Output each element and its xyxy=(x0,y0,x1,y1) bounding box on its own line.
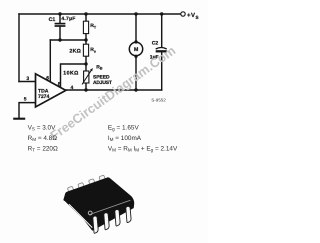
node C1 top xyxy=(58,12,61,15)
wire output rail xyxy=(66,89,162,91)
wire top supply rail xyxy=(19,13,181,15)
node C1 bottom xyxy=(58,38,61,41)
svg-text:ADJUST: ADJUST xyxy=(93,80,112,86)
svg-text:2KΩ: 2KΩ xyxy=(69,48,81,54)
svg-text:IM = 100mA: IM = 100mA xyxy=(108,135,142,142)
resistor RS xyxy=(83,44,88,56)
IC bottom-left highlight xyxy=(69,204,92,227)
wire RT bottom lead xyxy=(85,34,87,40)
svg-text:4: 4 xyxy=(71,85,74,91)
svg-text:C1: C1 xyxy=(49,17,56,23)
IC front parting line xyxy=(89,200,131,215)
wire pin8 xyxy=(61,64,87,88)
capacitor C1 xyxy=(55,24,66,26)
pin 1 bottom lead xyxy=(93,216,99,233)
wire RS top lead xyxy=(85,40,87,44)
svg-text:5: 5 xyxy=(24,96,27,102)
pin 5 top nub xyxy=(99,175,106,182)
svg-text:6: 6 xyxy=(46,75,49,81)
ground xyxy=(13,118,25,120)
svg-text:VS = 3.0V: VS = 3.0V xyxy=(28,124,57,131)
svg-text:RM = 4.8Ω: RM = 4.8Ω xyxy=(28,135,58,142)
pin 3 bottom lead xyxy=(115,209,121,226)
node motor bottom xyxy=(134,88,137,91)
IC package SOIC-8 photo xyxy=(64,175,133,233)
wire left rail xyxy=(18,14,20,82)
wire motor bottom lead xyxy=(135,57,137,91)
pin 7 top nub xyxy=(78,183,85,190)
svg-text:M: M xyxy=(134,47,138,53)
node RT-RS junction xyxy=(84,38,87,41)
svg-text:Eg = 1.65V: Eg = 1.65V xyxy=(108,124,140,131)
motor M xyxy=(129,40,142,58)
pin 2 bottom lead xyxy=(104,213,110,230)
svg-text:S-9552: S-9552 xyxy=(151,98,166,103)
svg-text:4.7µF: 4.7µF xyxy=(61,16,75,22)
svg-text:RT: RT xyxy=(90,23,97,29)
wire node C1-RT xyxy=(50,39,86,41)
wire pot bottom lead xyxy=(85,83,87,90)
svg-text:RT = 220Ω: RT = 220Ω xyxy=(28,146,58,153)
wire motor top lead xyxy=(135,14,137,42)
svg-text:3: 3 xyxy=(26,76,29,82)
potentiometer RB xyxy=(82,68,93,85)
wire C2 bottom lead xyxy=(161,52,163,90)
wire C2 top lead xyxy=(161,14,163,47)
wire pin5 input xyxy=(19,103,36,118)
node C2 top xyxy=(160,12,163,15)
pin 4 bottom lead xyxy=(126,206,132,222)
svg-text:RB: RB xyxy=(96,64,103,70)
wire C1 top lead xyxy=(59,14,61,23)
node RT top xyxy=(84,12,87,15)
wire pot top lead xyxy=(85,64,87,71)
wire RT top lead xyxy=(85,14,87,21)
IC pin1 dot xyxy=(88,211,92,215)
svg-text:7274: 7274 xyxy=(38,94,49,100)
node motor top xyxy=(134,12,137,15)
wire C1 bottom lead xyxy=(59,27,61,40)
pin 8 top nub xyxy=(67,186,74,193)
wire RS bottom lead xyxy=(85,56,87,64)
svg-text:C2: C2 xyxy=(152,41,159,47)
IC body xyxy=(64,178,133,230)
svg-text:8: 8 xyxy=(58,81,61,87)
resistor RT xyxy=(83,21,88,33)
svg-text:Rs: Rs xyxy=(90,47,96,54)
svg-text:SPEED: SPEED xyxy=(93,75,110,81)
node pot bottom xyxy=(84,88,87,91)
op-amp U1 TDA7274 xyxy=(36,74,66,107)
terminal +Vs xyxy=(181,12,185,16)
capacitor C2 xyxy=(156,48,167,52)
node RS-pot junction xyxy=(84,62,87,65)
wire pin3 input xyxy=(19,81,36,83)
pin 6 top nub xyxy=(88,179,95,186)
wire pin6 xyxy=(49,40,51,83)
svg-text:+VS: +VS xyxy=(187,12,199,20)
svg-text:10KΩ: 10KΩ xyxy=(63,71,78,77)
svg-text:VM = RM IM + Eg = 2.14V: VM = RM IM + Eg = 2.14V xyxy=(108,145,178,152)
